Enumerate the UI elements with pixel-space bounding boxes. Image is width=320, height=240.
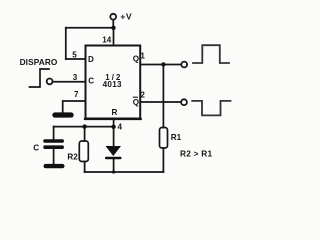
terminal: Q output circle xyxy=(181,62,187,68)
wire: bottom rail xyxy=(85,171,164,173)
capacitor C bottom lead xyxy=(53,149,55,164)
wire: pin 4 R input vertical xyxy=(113,119,115,146)
svg-text:4013: 4013 xyxy=(103,80,122,89)
svg-text:4: 4 xyxy=(118,122,123,131)
svg-text:2: 2 xyxy=(140,90,145,99)
capacitor C plate 1 xyxy=(43,139,64,143)
svg-text:Q: Q xyxy=(133,54,139,63)
svg-text:D: D xyxy=(88,55,94,64)
resistor R1 body xyxy=(160,128,168,149)
capacitor C plate 2 xyxy=(43,145,64,149)
wire: +V terminal to supply junction xyxy=(112,20,114,28)
node: supply junction dot xyxy=(111,26,115,30)
terminal: trigger input circle xyxy=(47,79,53,85)
svg-text:14: 14 xyxy=(102,35,112,44)
wire: pin 5 to D input xyxy=(66,58,85,60)
op-amp U1 IC 1/2 4013 body xyxy=(86,46,141,119)
resistor R2 top lead xyxy=(84,127,86,141)
ground bar pin 7 xyxy=(52,112,73,117)
svg-text:C: C xyxy=(33,143,39,152)
wire: trigger input terminal to pin 3 C input xyxy=(53,81,85,83)
ground bar below capacitor C xyxy=(44,164,65,168)
diode D1 cathode lead xyxy=(113,159,115,172)
svg-text:DISPARO: DISPARO xyxy=(20,57,58,67)
svg-text:7: 7 xyxy=(74,90,79,99)
terminal: Q-bar output circle xyxy=(181,99,187,105)
IC box bottom edge thickening xyxy=(85,118,141,120)
svg-text:R2: R2 xyxy=(67,152,78,161)
capacitor C top lead xyxy=(53,127,55,140)
wire: pin 14 supply into IC xyxy=(113,28,115,45)
wire: pin 7 to ground xyxy=(63,101,85,113)
svg-text:R1: R1 xyxy=(171,133,182,142)
wire: R1 bottom lead xyxy=(162,148,164,172)
wire: pin 1 Q output xyxy=(141,64,181,66)
svg-text:+V: +V xyxy=(120,12,132,22)
svg-text:Q: Q xyxy=(133,98,139,107)
+V supply terminal xyxy=(110,14,116,20)
trigger step waveform symbol xyxy=(30,69,50,87)
resistor R2 body xyxy=(79,141,88,162)
svg-text:R2 > R1: R2 > R1 xyxy=(180,149,213,159)
output waveform Q (positive pulse) xyxy=(193,45,229,63)
node: R2 top junction dot xyxy=(82,124,86,128)
svg-text:1: 1 xyxy=(140,52,145,61)
diode D1 triangle xyxy=(106,146,122,156)
node: Q output junction dot xyxy=(161,62,165,66)
wire: R2 bottom lead xyxy=(84,162,86,173)
node: pin 4 RC junction dot xyxy=(111,125,115,129)
label Q-bar overline xyxy=(133,96,138,98)
diode D1 cathode bar xyxy=(105,157,122,160)
wire: RC node horizontal xyxy=(54,126,114,128)
wire: pin 2 Q-bar output xyxy=(141,101,181,103)
svg-text:C: C xyxy=(88,76,94,85)
wire: D loop vertical xyxy=(65,28,67,59)
wire: supply rail horizontal to D loop xyxy=(66,27,114,29)
svg-text:R: R xyxy=(112,108,118,117)
output waveform Q-bar (negative pulse) xyxy=(192,101,230,116)
wire: Q output down to resistor R1 xyxy=(162,65,164,128)
svg-text:3: 3 xyxy=(73,73,78,82)
svg-text:5: 5 xyxy=(72,50,77,59)
node: diode bottom junction dot xyxy=(112,170,115,173)
